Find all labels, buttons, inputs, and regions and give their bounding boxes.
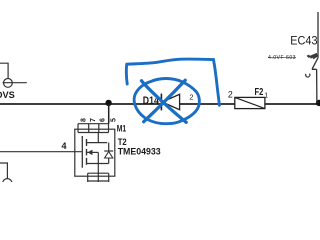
wire diode to fuse segment <box>180 103 235 105</box>
svg-text:TME04933: TME04933 <box>118 147 161 157</box>
mosfet gate wire pin 4 <box>0 151 82 153</box>
svg-text:2: 2 <box>228 89 233 100</box>
diode D14 cathode bar <box>160 94 162 111</box>
wire drain vertical <box>108 104 110 124</box>
pin 7 stub <box>88 124 90 133</box>
node junction dot right <box>316 100 320 106</box>
svg-text:6: 6 <box>100 118 107 122</box>
connector OVS stub wire <box>0 63 27 82</box>
mosfet arrow head <box>88 150 92 155</box>
pin 6 stub <box>98 124 100 133</box>
svg-text:OVS: OVS <box>0 90 15 100</box>
pin 3 stub <box>87 173 89 182</box>
wire main net left segment <box>0 103 161 105</box>
body diode cathode bar <box>104 150 113 152</box>
annotation blue rectangle loop <box>126 59 219 105</box>
mosfet channel segments <box>86 139 88 165</box>
fuse F2 diagonal <box>235 97 265 108</box>
body diode branch vertical top <box>108 143 110 151</box>
body diode triangle <box>105 152 113 159</box>
diode D14 triangle <box>162 94 179 109</box>
svg-text:F2: F2 <box>255 87 264 98</box>
annotation small curl <box>306 74 310 77</box>
annotation blue X stroke 2 <box>144 80 186 122</box>
pin 1 stub <box>108 173 110 182</box>
wire top pin bus box <box>78 124 109 133</box>
node junction dot at M1 drain <box>105 100 111 106</box>
wire source dropper <box>97 152 99 173</box>
pin 5 stub <box>108 124 110 133</box>
pin 2 stub <box>97 173 99 182</box>
svg-text:8: 8 <box>81 118 88 122</box>
svg-text:4.0VF 603: 4.0VF 603 <box>268 55 296 61</box>
svg-text:M1: M1 <box>117 123 126 133</box>
mosfet body arrow stub <box>87 151 99 153</box>
svg-text:1: 1 <box>264 93 268 100</box>
mosfet gate bar <box>81 136 83 168</box>
wire bottom pin bus box <box>88 173 109 182</box>
svg-text:5: 5 <box>111 118 118 122</box>
connector bottom-left stub wire <box>0 163 7 179</box>
transistor M1 package outline <box>75 129 115 176</box>
svg-text:T2: T2 <box>118 137 127 147</box>
mosfet source stub <box>87 163 109 165</box>
wire fuse to right edge segment <box>265 103 320 105</box>
annotation blue ellipse blob <box>134 79 199 124</box>
wire drain riser <box>97 133 99 143</box>
pin 8 stub <box>77 124 79 133</box>
svg-text:4: 4 <box>62 141 67 151</box>
svg-text:2: 2 <box>189 93 193 102</box>
annotation pencil arrowhead <box>307 54 318 59</box>
connector bottom-left circle <box>3 179 12 188</box>
body diode branch vertical bottom <box>108 158 110 164</box>
svg-text:7: 7 <box>90 118 97 122</box>
wire EC43 vertical upper <box>317 12 319 57</box>
svg-text:EC43: EC43 <box>290 34 317 48</box>
wire EC43 vertical lower <box>316 69 318 103</box>
mosfet drain stub <box>87 142 108 144</box>
connector OVS circle <box>4 79 13 88</box>
fuse F2 body <box>235 97 265 108</box>
capacitor EC43 slash symbol <box>312 57 319 69</box>
annotation blue X stroke 1 <box>142 81 187 123</box>
